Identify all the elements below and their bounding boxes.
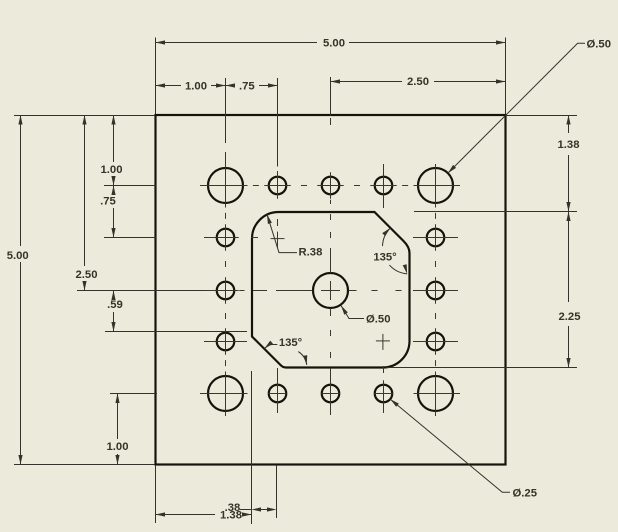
- angle dimension 135 top-right: [389, 265, 407, 274]
- hole D.50 center: [313, 273, 348, 308]
- center line column 1: [225, 152, 227, 208]
- svg-text:2.50: 2.50: [76, 269, 98, 281]
- svg-text:1.00: 1.00: [101, 164, 123, 176]
- dimension 1.00 left: [113, 115, 115, 162]
- dimension 1.38 bottom: [156, 514, 216, 516]
- hole D.50 bottom-left: [208, 376, 243, 411]
- inner cutout square with R.38 fillets and 135-degree chamfers: [252, 212, 410, 368]
- center line row 2 left: [251, 237, 258, 239]
- hole D.25 #4 at (225.5,237.5): [217, 229, 235, 247]
- center line row 5: [200, 393, 248, 395]
- hole D.25 #6 at (225.5,290.5): [217, 282, 235, 300]
- extension line top at plate right: [505, 38, 507, 115]
- svg-text:1.00: 1.00: [185, 80, 207, 92]
- svg-text:135°: 135°: [279, 337, 303, 349]
- hole D.25 #1 at (277.5,185.5): [269, 177, 287, 195]
- fillet center mark bottom-right: [376, 340, 390, 342]
- extension line left at center row: [77, 290, 203, 292]
- dimension 5.00 top: [156, 42, 318, 44]
- extension line bottom at plate left: [155, 465, 157, 523]
- center line row 2 right: [413, 237, 458, 239]
- extension line right at cutout top: [414, 211, 577, 213]
- leader R.38 fillet: [267, 214, 297, 252]
- center line column 3 lower: [330, 308, 332, 316]
- extension line top at column 2: [277, 78, 279, 167]
- center line column 4 lower: [383, 366, 385, 373]
- center mark of center hole: [321, 290, 340, 292]
- hole D.50 bottom-right: [418, 376, 453, 411]
- extension line bottom at cutout left edge: [251, 371, 253, 524]
- hole D.25 #8 at (225.5,341.5): [217, 333, 235, 351]
- extension line right at cutout bottom: [386, 367, 577, 369]
- hole D.25 #10 at (277.5,393.5): [269, 385, 287, 403]
- extension line right at plate top: [506, 115, 577, 117]
- leader D.50 top-right hole: [448, 43, 585, 173]
- svg-text:5.00: 5.00: [7, 250, 29, 262]
- svg-text:Ø.50: Ø.50: [366, 314, 391, 326]
- hole D.25 #7 at (435.5,290.5): [427, 282, 445, 300]
- center line row 4 left: [204, 341, 247, 343]
- extension line top at column 1: [225, 78, 227, 143]
- center line column 2 lower: [277, 368, 279, 413]
- svg-text:R.38: R.38: [299, 247, 323, 259]
- svg-text:Ø.50: Ø.50: [587, 39, 612, 51]
- hole D.25 #12 at (383.5,393.5): [375, 385, 393, 403]
- angle dimension 135 bottom-left: [265, 345, 278, 349]
- extension line bottom at fillet center: [276, 465, 278, 518]
- svg-text:Ø.25: Ø.25: [513, 487, 538, 499]
- center line column 3 upper: [330, 118, 332, 125]
- svg-text:1.00: 1.00: [107, 441, 129, 453]
- hole D.25 #3 at (383.5,185.5): [375, 177, 393, 195]
- center line row 4 right: [413, 341, 458, 343]
- svg-text:2.50: 2.50: [407, 76, 429, 88]
- dimension 1.00 bottom-left: [117, 394, 119, 440]
- dimension 1.38 right: [568, 115, 570, 133]
- dimension .75 top: [226, 85, 235, 87]
- center line row 1: [200, 185, 248, 187]
- extension line left at row 1: [104, 185, 156, 187]
- dimension 2.25 right: [568, 212, 570, 303]
- dimension 1.00 top: [156, 85, 182, 87]
- extension line left at chamfer point: [105, 331, 247, 333]
- svg-text:1.38: 1.38: [558, 139, 580, 151]
- plate outline 5.00 x 5.00: [156, 115, 506, 465]
- extension line left at row 2: [104, 237, 156, 239]
- extension line left at plate bottom: [14, 464, 155, 466]
- extension line left at plate top: [14, 115, 155, 117]
- fillet center mark top-left: [271, 238, 285, 240]
- dimension .38 bottom: [240, 509, 251, 511]
- dimension 5.00 left: [20, 115, 22, 246]
- hole D.50 top-right: [418, 168, 453, 203]
- hole D.25 #5 at (435.5,237.5): [427, 229, 445, 247]
- svg-text:.75: .75: [239, 80, 255, 92]
- leader D.25 bottom hole: [390, 399, 510, 492]
- extension line left at bottom row: [110, 393, 157, 395]
- leader D.50 center hole: [341, 306, 364, 319]
- extension line top at column 3: [330, 77, 332, 116]
- hole D.25 #11 at (330.5,393.5): [322, 385, 340, 403]
- center line column 5: [435, 164, 437, 208]
- center line row 3 right: [349, 290, 357, 292]
- svg-text:5.00: 5.00: [323, 38, 345, 50]
- svg-text:135°: 135°: [373, 252, 397, 264]
- dimension .59 left: [113, 291, 115, 296]
- center line column 2 upper: [277, 219, 279, 226]
- hole D.50 top-left: [208, 168, 243, 203]
- svg-text:.75: .75: [100, 196, 116, 208]
- center line column 4 upper: [383, 164, 385, 208]
- dimension 2.50 top: [331, 81, 403, 83]
- hole D.25 #2 at (330.5,185.5): [322, 177, 340, 195]
- dimension .75 left: [113, 186, 115, 192]
- dimension 2.50 left: [84, 115, 86, 266]
- center line row 3 left: [203, 290, 239, 292]
- svg-text:.59: .59: [107, 299, 123, 311]
- extension line top at plate left: [155, 38, 157, 115]
- svg-text:2.25: 2.25: [559, 311, 581, 323]
- svg-text:.38: .38: [225, 502, 241, 514]
- hole D.25 #9 at (435.5,341.5): [427, 333, 445, 351]
